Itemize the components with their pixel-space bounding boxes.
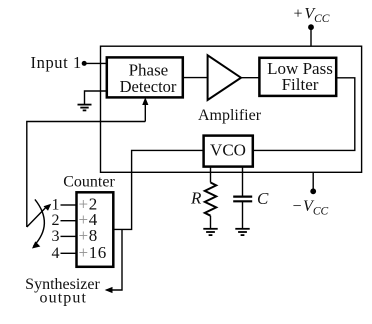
- +Vcc node dot: [308, 24, 314, 30]
- svg-text:output: output: [40, 290, 88, 307]
- -Vcc node dot: [310, 188, 316, 194]
- wire phase detector to amplifier: [183, 77, 208, 79]
- resistor R wire bottom stub: [210, 216, 212, 229]
- Amplifier label: [198, 107, 262, 124]
- svg-text:2: 2: [52, 212, 60, 229]
- arrowhead synthesizer output: [105, 287, 113, 293]
- capacitor C wire top stub: [242, 167, 244, 197]
- arrowhead of selector arc: [32, 241, 40, 248]
- outer PLL block boundary rectangle: [101, 46, 362, 172]
- selector switch arm to counter pin 1: [27, 206, 48, 227]
- pin 1 label: [52, 197, 60, 214]
- divide by 8 label: [79, 226, 98, 245]
- pin 3 label: [52, 228, 60, 245]
- pin 1 stub wire: [61, 204, 77, 206]
- svg-text:4: 4: [52, 245, 60, 262]
- svg-text:Amplifier: Amplifier: [198, 107, 262, 124]
- resistor R wire top stub: [210, 167, 212, 183]
- Input 1 label: [31, 53, 82, 72]
- pin 2 stub wire: [61, 220, 77, 222]
- svg-text:VCO: VCO: [210, 140, 246, 159]
- C value label: [257, 189, 269, 208]
- divide by 16 label: [79, 243, 107, 262]
- ground (under R): [203, 229, 217, 235]
- R value label: [190, 188, 202, 207]
- arrowhead of selector arm: [44, 204, 52, 211]
- -Vcc supply label: [293, 198, 329, 218]
- divide by 4 label: [79, 210, 98, 229]
- svg-text:Detector: Detector: [120, 77, 177, 96]
- pin 3 stub wire: [61, 235, 77, 237]
- op-amp amplifier triangle: [208, 55, 241, 100]
- wire input to phase detector: [84, 62, 107, 64]
- resistor R: [205, 183, 216, 216]
- capacitor C: [233, 197, 252, 202]
- svg-text:R: R: [190, 188, 202, 207]
- svg-text:Input 1: Input 1: [31, 53, 82, 72]
- svg-text:Filter: Filter: [282, 75, 319, 94]
- selector rotation arc: [34, 199, 45, 246]
- wire feedback from counter to phase detector: [27, 100, 146, 227]
- pin 4 label: [52, 245, 60, 262]
- VCO box: [204, 136, 253, 167]
- wire -Vcc stub: [312, 172, 314, 191]
- phase detector box: [107, 57, 183, 97]
- wire +Vcc to top edge: [310, 27, 312, 46]
- arrowhead into phase detector: [142, 97, 148, 105]
- svg-text:+16: +16: [79, 243, 107, 262]
- input node dot: [82, 61, 87, 66]
- wire VCO output to counter: [114, 150, 204, 229]
- svg-text:Counter: Counter: [63, 174, 115, 191]
- wire low pass filter to VCO: [253, 78, 355, 151]
- +Vcc supply label: [294, 6, 330, 26]
- low pass filter box: [259, 58, 336, 96]
- wire amplifier to low pass filter: [241, 77, 260, 79]
- ground (input side): [78, 105, 92, 111]
- pin 4 stub wire: [61, 252, 77, 254]
- svg-text:1: 1: [52, 197, 60, 214]
- svg-text:C: C: [257, 189, 269, 208]
- Counter label: [63, 174, 115, 191]
- capacitor C wire bottom stub: [242, 201, 244, 228]
- ground (under C): [235, 229, 249, 235]
- wire synthesizer output branch: [107, 229, 123, 290]
- divide by 2 label: [79, 195, 98, 214]
- pin 2 label: [52, 212, 60, 229]
- Synthesizer output label: [25, 276, 100, 307]
- counter box: [77, 192, 114, 266]
- svg-text:3: 3: [52, 228, 60, 245]
- wire phase detector second input to ground: [85, 91, 108, 104]
